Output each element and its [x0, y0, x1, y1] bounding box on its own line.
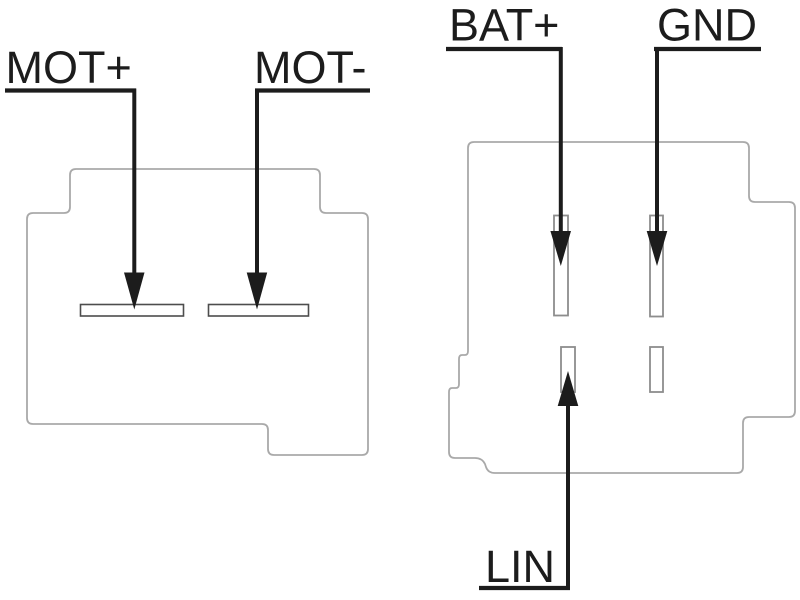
- svg-text:GND: GND: [657, 0, 757, 51]
- svg-text:MOT+: MOT+: [6, 42, 132, 93]
- svg-text:LIN: LIN: [485, 541, 555, 592]
- pin slot unused (J2 pin 4): [650, 347, 663, 392]
- svg-text:BAT+: BAT+: [449, 0, 559, 51]
- connector housing J2 (control connector, right): [449, 142, 795, 473]
- wire leader MOT+ (underline and drop line): [5, 89, 136, 278]
- label BAT+: [449, 0, 559, 51]
- pin slot BAT+ (J2 pin 1): [554, 216, 568, 316]
- arrowhead MOT-: [247, 273, 268, 310]
- label MOT-: [254, 42, 366, 93]
- svg-text:MOT-: MOT-: [254, 42, 366, 93]
- pin slot LIN (J2 pin 3): [561, 347, 575, 392]
- label LIN: [485, 541, 555, 592]
- arrowhead LIN: [558, 371, 579, 406]
- wire leader LIN (underline and riser line): [479, 402, 570, 590]
- wire leader MOT- (underline and drop line): [255, 89, 370, 278]
- pin slot MOT+ (J1 pin 1): [81, 305, 184, 317]
- wire leader BAT+ (underline and drop line): [446, 47, 562, 236]
- connector housing J1 (motor connector, left): [27, 169, 368, 455]
- arrowhead MOT+: [124, 273, 145, 310]
- arrowhead GND: [647, 231, 668, 266]
- pin slot GND (J2 pin 2): [650, 216, 663, 317]
- arrowhead BAT+: [550, 231, 571, 266]
- label GND: [657, 0, 757, 51]
- wire leader GND (underline and drop line): [654, 47, 761, 236]
- pin slot MOT- (J1 pin 2): [209, 305, 309, 317]
- label MOT+: [6, 42, 132, 93]
